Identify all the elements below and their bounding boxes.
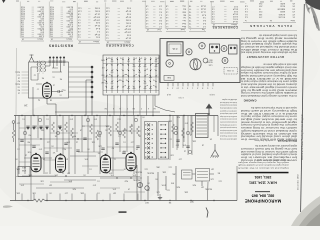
condensers col 2 footer bbox=[106, 41, 131, 44]
svg-text:96(10K): 96(10K) bbox=[135, 171, 142, 173]
svg-text:R9: R9 bbox=[74, 135, 76, 137]
svg-text:rear check voltages against th: rear check voltages against the table al… bbox=[240, 65, 297, 68]
svg-text:BUTTON ADJUSTMENT: BUTTON ADJUSTMENT bbox=[246, 55, 284, 59]
svg-text:100 pF: 100 pF bbox=[124, 31, 131, 33]
svg-text:end of each band repeat until: end of each band repeat until no further bbox=[220, 121, 237, 124]
windings A rows bbox=[165, 1, 186, 30]
svg-text:LW: LW bbox=[102, 66, 105, 68]
svg-text:chassis is secured by four bol: chassis is secured by four bolts and may bbox=[220, 107, 237, 110]
svg-text:CONDENSERS: CONDENSERS bbox=[105, 43, 133, 47]
coils table rows bbox=[145, 1, 162, 30]
svg-text:turn the gang to full mesh con: turn the gang to full mesh connect bbox=[240, 147, 297, 150]
text para 3 bbox=[240, 106, 297, 140]
page fold line bbox=[15, 48, 17, 115]
coils footer bbox=[146, 28, 162, 31]
title small print bbox=[238, 159, 289, 170]
electrolytic C25 bbox=[145, 186, 149, 190]
AVC line bbox=[16, 176, 140, 178]
svg-text:0.002: 0.002 bbox=[94, 7, 100, 9]
svg-text:EABC80: EABC80 bbox=[276, 7, 285, 10]
grid interconnect links bbox=[18, 139, 142, 188]
tag strip under chassis box bbox=[168, 83, 213, 87]
svg-text:C15: C15 bbox=[167, 189, 170, 191]
svg-text:1H: 1H bbox=[24, 103, 27, 107]
svg-text:Chassis Removal: Chassis Removal bbox=[278, 139, 297, 141]
svg-text:H.M.V. 1104, 1301: H.M.V. 1104, 1301 bbox=[249, 180, 277, 184]
svg-text:using nylon braided cord of su: using nylon braided cord of suitable len… bbox=[238, 164, 289, 167]
svg-text:.05: .05 bbox=[87, 148, 90, 150]
resistors col 2 footer bbox=[50, 38, 73, 41]
V2 label bbox=[52, 151, 55, 153]
svg-text:R26: R26 bbox=[73, 188, 76, 190]
detector diodes row bbox=[26, 126, 62, 130]
svg-text:IR3: IR3 bbox=[171, 182, 174, 184]
capacitor OC2 bbox=[52, 90, 63, 93]
svg-text:should be replac: should be replac bbox=[222, 98, 237, 101]
corner pen tick bbox=[2, 0, 6, 3]
trimmer row bbox=[49, 57, 66, 65]
svg-text:may be withdrawn after removin: may be withdrawn after removing control … bbox=[240, 51, 297, 54]
coupling capacitors bbox=[20, 138, 139, 154]
output transformer block bbox=[210, 44, 220, 53]
FM wiring bbox=[34, 62, 64, 72]
svg-text:.05: .05 bbox=[105, 129, 108, 131]
svg-text:and turn the gang to full mesh: and turn the gang to full mesh connect bbox=[240, 123, 297, 126]
waveband switch unit outline bbox=[103, 55, 159, 95]
svg-text:length switch the receiver to: length switch the receiver to long waves… bbox=[240, 150, 297, 153]
svg-text:.05: .05 bbox=[83, 174, 86, 176]
page margin rule bbox=[301, 4, 305, 212]
svg-text:L9: L9 bbox=[80, 129, 82, 131]
stray print marks along top edge bbox=[16, 0, 292, 2]
svg-text:avoid a v c action trim at: avoid a v c action trim at bbox=[240, 77, 297, 80]
387 label b bbox=[144, 201, 148, 203]
svg-text:1L: 1L bbox=[119, 107, 121, 109]
svg-text:C31: C31 bbox=[92, 141, 95, 143]
svg-text:.01: .01 bbox=[97, 192, 100, 194]
svg-text:L11: L11 bbox=[45, 172, 48, 174]
svg-text:56,000: 56,000 bbox=[37, 5, 44, 7]
svg-text:3: 3 bbox=[127, 107, 128, 109]
windings B footer bbox=[189, 28, 206, 31]
svg-text:13-14: 13-14 bbox=[200, 8, 206, 10]
tuning coils L1 L2 bbox=[37, 61, 46, 74]
svg-text:2M: 2M bbox=[113, 192, 116, 194]
svg-text:R21: R21 bbox=[177, 116, 180, 118]
svg-text:C14: C14 bbox=[118, 118, 121, 120]
valve V4 EABC80 bbox=[101, 154, 111, 173]
svg-text:R25: R25 bbox=[193, 184, 196, 186]
svg-text:25 uF: 25 uF bbox=[125, 37, 131, 39]
svg-text:L3: L3 bbox=[190, 134, 192, 136]
svg-text:v c action trim at the high fr: v c action trim at the high frequency bbox=[219, 123, 237, 126]
svg-text:.01: .01 bbox=[118, 135, 121, 137]
svg-text:C15: C15 bbox=[169, 166, 172, 168]
svg-text:L4: L4 bbox=[18, 77, 20, 79]
svg-text:.01: .01 bbox=[53, 76, 56, 78]
svg-text:full mesh connect signal gener: full mesh connect signal generator via bbox=[258, 34, 297, 37]
svg-text:2M: 2M bbox=[67, 172, 70, 174]
svg-text:96(10K): 96(10K) bbox=[205, 188, 212, 190]
svg-text:switch the receiver to long wa: switch the receiver to long waves bbox=[240, 126, 297, 129]
text para 1 bbox=[239, 34, 297, 54]
valveholder B5 bbox=[222, 58, 228, 64]
svg-text:suitable length switch the rec: suitable length switch the receiver to l… bbox=[220, 137, 237, 140]
svg-text:0.002: 0.002 bbox=[125, 19, 131, 21]
V4 label bbox=[122, 150, 125, 152]
svg-text:1M: 1M bbox=[201, 186, 204, 188]
condensers col 3 footer bbox=[212, 23, 238, 26]
svg-text:R3: R3 bbox=[29, 134, 31, 136]
chassis earth symbol bbox=[210, 144, 218, 158]
svg-text:C1 C2A: C1 C2A bbox=[227, 69, 234, 72]
svg-text:100 pF: 100 pF bbox=[93, 18, 100, 20]
svg-text:.05: .05 bbox=[51, 145, 54, 147]
svg-text:VALVE VOLTAGES: VALVE VOLTAGES bbox=[249, 24, 292, 28]
svg-text:L2: L2 bbox=[76, 141, 78, 143]
secondary rail bbox=[55, 111, 160, 113]
FM unit outline bbox=[29, 62, 69, 98]
svg-text:taken with a model eight meter: taken with a model eight meter on bbox=[262, 63, 297, 66]
IFT2 contact bank bbox=[158, 122, 169, 160]
title block rule bbox=[238, 172, 289, 174]
svg-text:UBC: UBC bbox=[145, 189, 150, 191]
slanted wire to pointer bbox=[207, 182, 210, 201]
trimmer access C1 C2A bbox=[224, 68, 238, 75]
callout L6 9 bbox=[166, 93, 171, 95]
switch contacts S1 bbox=[101, 57, 159, 93]
svg-text:R25: R25 bbox=[134, 166, 137, 168]
svg-text:repeat until no further improv: repeat until no further improvement resu… bbox=[250, 106, 297, 109]
svg-text:L12: L12 bbox=[47, 141, 50, 143]
svg-text:R8: R8 bbox=[28, 141, 30, 143]
svg-text:improvement results the valves: improvement results the valves and dial … bbox=[220, 118, 237, 121]
svg-text:L10: L10 bbox=[17, 122, 20, 124]
svg-text:GANGING: GANGING bbox=[243, 99, 256, 103]
svg-text:L9: L9 bbox=[61, 129, 63, 131]
svg-text:high frequency end of each ban: high frequency end of each band bbox=[240, 109, 297, 112]
svg-text:V1B: V1B bbox=[21, 169, 26, 171]
svg-text:Grn: Grn bbox=[183, 19, 186, 21]
svg-text:of suitable length switch the: of suitable length switch the receiver t… bbox=[240, 91, 297, 94]
svg-text:ECH81: ECH81 bbox=[278, 13, 285, 15]
98 label bbox=[168, 201, 171, 203]
svg-text:GM: GM bbox=[101, 81, 104, 83]
svg-text:.05: .05 bbox=[15, 158, 18, 160]
valve V3 EF89 bbox=[56, 153, 66, 172]
svg-text:1M: 1M bbox=[211, 168, 214, 170]
valve voltages rows bbox=[244, 2, 295, 18]
svg-text:Org: Org bbox=[183, 5, 186, 7]
title MARCONIPHONE bbox=[245, 193, 281, 203]
svg-text:as shown in the sketch using: as shown in the sketch using bbox=[240, 132, 297, 135]
svg-text:50 pF: 50 pF bbox=[94, 33, 100, 35]
windings A footer bbox=[166, 28, 186, 31]
svg-text:UBC: UBC bbox=[171, 173, 176, 175]
svg-text:R4: R4 bbox=[42, 77, 44, 79]
svg-text:6: 6 bbox=[148, 107, 149, 109]
chassis rail (bottom bus) bbox=[10, 200, 237, 202]
svg-text:a model eight meter on the app: a model eight meter on the appropriate t… bbox=[220, 109, 237, 112]
svg-text:ECC85: ECC85 bbox=[278, 16, 285, 18]
V1B 6F1 text bbox=[21, 166, 26, 171]
svg-text:switch the receiver to long wa: switch the receiver to long waves and tu… bbox=[238, 161, 289, 164]
svg-text:C7: C7 bbox=[37, 88, 39, 90]
svg-text:C3: C3 bbox=[18, 74, 20, 76]
valveholder B4 bbox=[221, 46, 227, 52]
svg-text:to the aerial socket and adjus: to the aerial socket and adjust bbox=[240, 118, 297, 121]
svg-text:500 pF: 500 pF bbox=[93, 15, 100, 17]
test point numbers bbox=[23, 118, 189, 134]
svg-text:L10: L10 bbox=[179, 158, 182, 160]
output transformer T4 bbox=[196, 114, 209, 138]
mains dropper block bbox=[229, 45, 238, 54]
svg-text:RESISTORS: RESISTORS bbox=[48, 43, 73, 47]
title block short rule bbox=[255, 190, 270, 193]
svg-text:4: 4 bbox=[113, 107, 114, 109]
lead to chassis plan (arrow) bbox=[206, 104, 213, 115]
condensers col 1 rows bbox=[77, 3, 100, 41]
svg-text:R7: R7 bbox=[112, 147, 114, 149]
svg-text:waves and turn the gang to: waves and turn the gang to bbox=[219, 135, 237, 138]
svg-text:2M: 2M bbox=[41, 129, 44, 131]
CONDENSERS caption 2 bbox=[212, 25, 238, 29]
svg-text:be withdrawn after removing co: be withdrawn after removing control knob… bbox=[220, 104, 237, 107]
svg-text:.05: .05 bbox=[49, 192, 52, 194]
tone components cluster bbox=[133, 166, 222, 194]
svg-text:dial drive cord should be repl: dial drive cord should be replaced bbox=[240, 135, 297, 138]
svg-text:dummy aerial to the aerial soc: dummy aerial to the aerial socket and bbox=[240, 83, 297, 86]
svg-text:L9: L9 bbox=[128, 188, 130, 190]
svg-text:S2(2): S2(2) bbox=[15, 83, 20, 85]
corner artifact bbox=[305, 0, 320, 31]
margin date text bbox=[297, 174, 300, 190]
component value labels bbox=[15, 116, 212, 195]
junction dots bbox=[21, 115, 214, 201]
svg-text:C6: C6 bbox=[18, 86, 20, 88]
387 label bbox=[189, 200, 194, 202]
svg-text:S2(1): S2(1) bbox=[15, 71, 20, 73]
V1B label bbox=[27, 151, 31, 153]
svg-text:the gang to full mesh connect: the gang to full mesh connect signal bbox=[257, 159, 289, 162]
svg-text:.01: .01 bbox=[97, 180, 100, 182]
1H bbox=[24, 103, 27, 107]
svg-text:500 pF: 500 pF bbox=[124, 28, 131, 30]
svg-text:8 uF: 8 uF bbox=[95, 27, 100, 29]
svg-text:.05: .05 bbox=[142, 116, 145, 118]
svg-text:in the sketch using nylon brai: in the sketch using nylon braided cord bbox=[240, 94, 297, 97]
svg-text:L8: L8 bbox=[202, 144, 204, 146]
svg-text:470: 470 bbox=[93, 184, 96, 186]
resistors table col 1 rows bbox=[20, 2, 44, 39]
svg-text:C2: C2 bbox=[34, 74, 36, 76]
svg-text:.01: .01 bbox=[123, 141, 126, 143]
interstage links bbox=[19, 126, 145, 192]
svg-text:C15: C15 bbox=[145, 168, 148, 170]
mains transformer T5 bbox=[167, 42, 183, 56]
svg-text:December 1959: December 1959 bbox=[297, 174, 300, 190]
svg-text:CONDENSERS: CONDENSERS bbox=[212, 25, 238, 29]
schematic right boundary wire bbox=[217, 116, 219, 137]
svg-text:R4: R4 bbox=[60, 78, 62, 80]
condensers col 3 rows bbox=[211, 1, 238, 24]
svg-text:1501, 1601: 1501, 1601 bbox=[254, 175, 271, 179]
svg-text:2M: 2M bbox=[49, 184, 52, 186]
svg-text:C36: C36 bbox=[41, 180, 44, 182]
svg-text:replaced as shown in the sketc: replaced as shown in the sketch bbox=[238, 166, 289, 169]
resistor R30 in chassis rail bbox=[33, 199, 45, 202]
pointer mark bbox=[206, 208, 208, 218]
gram connector box bbox=[196, 169, 210, 182]
svg-text:be replaced as shown in the: be replaced as shown in the bbox=[240, 156, 297, 159]
svg-text:signal generator via a dummy a: signal generator via a dummy aerial to t… bbox=[254, 144, 297, 147]
svg-text:Valve: Valve bbox=[290, 19, 295, 21]
volume control box bbox=[182, 170, 193, 179]
svg-text:C36: C36 bbox=[33, 192, 36, 194]
svg-text:nylon braided cord of suitable: nylon braided cord of suitable length bbox=[240, 129, 297, 132]
svg-text:— undo the four fixing: — undo the four fixing bbox=[254, 139, 276, 142]
small can C27 bbox=[203, 58, 208, 63]
bottom right corner shading bbox=[291, 196, 320, 226]
svg-text:cores for maximum output reduc: cores for maximum output reduce input to bbox=[240, 115, 297, 118]
callout L7 10 bbox=[178, 96, 184, 98]
windings B rows bbox=[188, 1, 206, 30]
svg-text:Brn: Brn bbox=[183, 8, 186, 10]
svg-text:suitable length switch the rec: suitable length switch the receiver to l… bbox=[240, 39, 297, 42]
svg-text:470K: 470K bbox=[161, 184, 166, 186]
svg-text:470: 470 bbox=[94, 118, 97, 120]
svg-text:against the table all readings: against the table all readings taken wit… bbox=[220, 112, 237, 115]
svg-text:L10: L10 bbox=[65, 192, 68, 194]
callout L8 11 bbox=[209, 93, 215, 95]
aerial input AE bbox=[12, 121, 15, 142]
svg-text:2 1A: 2 1A bbox=[172, 47, 177, 50]
svg-text:60 pF: 60 pF bbox=[125, 10, 131, 12]
condensers col 2 rows bbox=[105, 3, 131, 42]
tone stage wires bbox=[137, 165, 214, 201]
left smudge bbox=[3, 205, 13, 207]
svg-text:UBC: UBC bbox=[155, 166, 160, 168]
tag numbers bbox=[166, 86, 213, 88]
valveholder B2 bbox=[186, 49, 192, 55]
margin imprint text bbox=[301, 114, 304, 160]
svg-text:L8,11: L8,11 bbox=[209, 93, 215, 95]
svg-text:R25: R25 bbox=[177, 186, 180, 188]
resistors table col 2 rows bbox=[49, 2, 73, 39]
FM unit down-leads bbox=[33, 68, 92, 116]
C26 label bbox=[206, 58, 212, 65]
electrolytic C26 bbox=[190, 59, 201, 70]
switch unit horizontal links bbox=[103, 64, 159, 91]
svg-text:C30: C30 bbox=[171, 154, 174, 156]
svg-text:V1B: V1B bbox=[27, 151, 31, 153]
text para 4 bbox=[240, 144, 297, 161]
svg-text:30 pF: 30 pF bbox=[125, 16, 131, 18]
resistors col 1 footer bbox=[21, 38, 44, 41]
valveholder B1 bbox=[166, 60, 173, 67]
svg-text:B5: B5 bbox=[218, 172, 220, 174]
left label column bbox=[15, 71, 28, 94]
IFT1 contact bank bbox=[145, 122, 157, 160]
valve V5 EL84 bbox=[126, 152, 136, 171]
svg-text:waves and turn the gang to: waves and turn the gang to bbox=[239, 36, 297, 39]
svg-text:SW: SW bbox=[101, 74, 104, 76]
valve V1 ECC85 bbox=[43, 82, 52, 99]
svg-text:.05: .05 bbox=[155, 178, 158, 180]
svg-text:470: 470 bbox=[176, 144, 179, 146]
chassis removal run-in bbox=[254, 139, 297, 142]
AF stage components bbox=[172, 116, 194, 156]
svg-text:L3: L3 bbox=[53, 84, 55, 86]
dial lamp bracket bbox=[164, 76, 174, 81]
valveholder B3 bbox=[199, 43, 205, 49]
electrolytic C24 bbox=[137, 182, 142, 187]
svg-text:884: 884 bbox=[210, 58, 213, 60]
signal path wires bbox=[19, 116, 141, 201]
middle col text bbox=[219, 98, 237, 140]
svg-text:waves and turn the gang to ful: waves and turn the gang to full bbox=[240, 88, 297, 91]
text para 2 bbox=[240, 63, 297, 97]
svg-text:882, 884, 865: 882, 884, 865 bbox=[252, 193, 275, 197]
schematic left boundary wire bbox=[15, 116, 17, 201]
svg-text:25 uF: 25 uF bbox=[94, 24, 100, 26]
svg-text:sketch using nylon braided cor: sketch using nylon braided cord of suita… bbox=[240, 153, 297, 156]
svg-text:and dial lamps are accessible: and dial lamps are accessible from the bbox=[240, 68, 297, 71]
svg-text:MW: MW bbox=[101, 59, 104, 61]
tag strip dots bbox=[69, 66, 94, 99]
svg-text:aerial to the aerial socket an: aerial to the aerial socket and adjust c… bbox=[220, 129, 237, 132]
chassis plan view outline bbox=[160, 39, 240, 83]
svg-text:MARCONIPHONE: MARCONIPHONE bbox=[245, 198, 281, 203]
lead labels row bbox=[104, 107, 156, 109]
title HMV models bbox=[249, 175, 277, 184]
AF stage wires bbox=[170, 116, 214, 161]
valve type tag box bbox=[18, 167, 30, 177]
svg-text:15-16: 15-16 bbox=[200, 5, 206, 7]
svg-text:Wht: Wht bbox=[182, 10, 186, 13]
aerial AE bbox=[29, 55, 34, 63]
right boundary drop wire bbox=[236, 166, 238, 201]
FM labels inside bbox=[34, 74, 62, 102]
svg-text:the back cover the dial drive: the back cover the dial drive cord bbox=[220, 101, 237, 104]
VALVE VOLTAGES caption bbox=[249, 24, 292, 28]
svg-text:96(10K): 96(10K) bbox=[147, 172, 154, 174]
svg-text:.01: .01 bbox=[17, 148, 20, 150]
svg-text:L5: L5 bbox=[18, 92, 20, 94]
bias resistors bbox=[52, 122, 140, 140]
valve voltages footer bbox=[243, 19, 296, 23]
svg-text:.01: .01 bbox=[46, 118, 49, 120]
svg-text:0.001: 0.001 bbox=[94, 10, 100, 12]
svg-text:.01: .01 bbox=[60, 94, 63, 96]
svg-text:C15: C15 bbox=[219, 180, 222, 182]
svg-text:470: 470 bbox=[70, 118, 73, 120]
svg-text:C1: C1 bbox=[114, 158, 116, 160]
svg-text:adjust cores for maximum outpu: adjust cores for maximum output reduce i… bbox=[240, 80, 297, 83]
svg-text:the back cover the dial drive: the back cover the dial drive bbox=[240, 48, 297, 51]
svg-text:C5: C5 bbox=[170, 138, 172, 140]
RESISTORS caption bbox=[48, 43, 73, 47]
svg-text:96(10K): 96(10K) bbox=[133, 179, 140, 181]
switch unit down-leads bbox=[108, 95, 154, 116]
svg-text:L4: L4 bbox=[184, 150, 186, 152]
svg-text:the sketch using nylon braided: the sketch using nylon braided cord of bbox=[240, 42, 297, 45]
svg-text:mesh connect signal generator: mesh connect signal generator via a bbox=[240, 85, 297, 88]
svg-text:accessible from the rear check: accessible from the rear check voltages bbox=[220, 115, 237, 118]
svg-text:R5: R5 bbox=[18, 89, 20, 91]
svg-text:0.001: 0.001 bbox=[125, 22, 131, 24]
svg-text:avoid a v c action trim at the: avoid a v c action trim at the bbox=[240, 112, 297, 115]
